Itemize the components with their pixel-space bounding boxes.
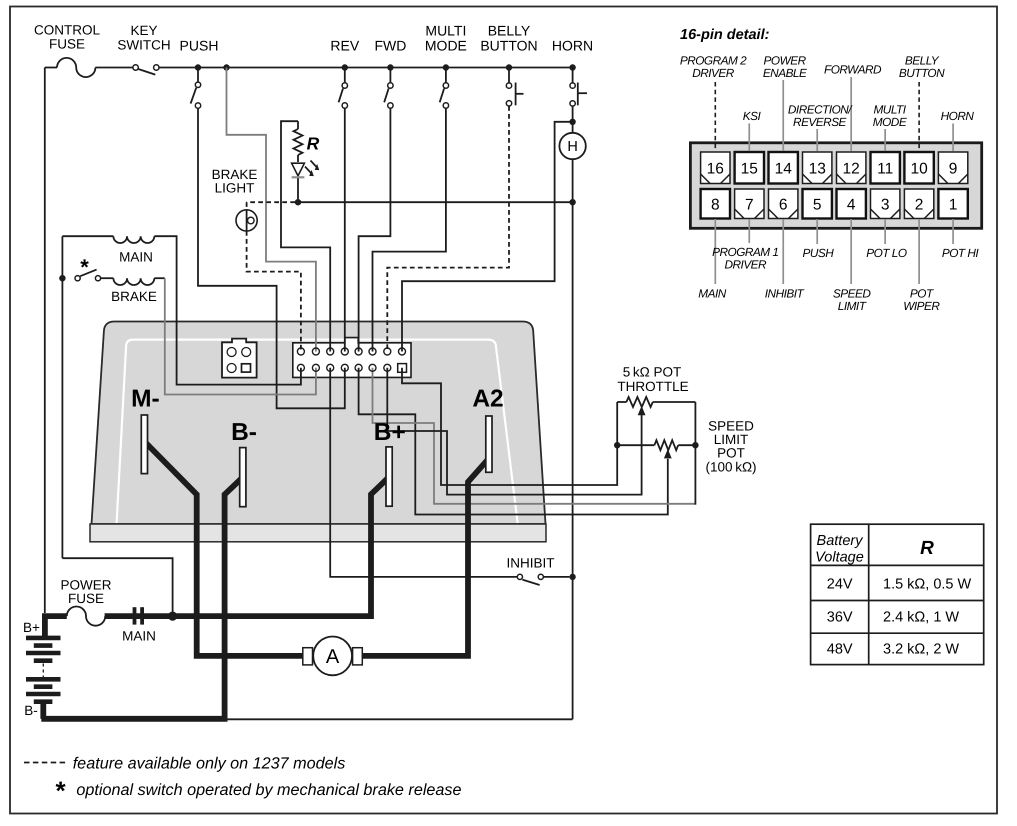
svg-text:36V: 36V (827, 610, 853, 626)
svg-text:PUSH: PUSH (180, 37, 219, 53)
wire: coil feed top (62, 235, 113, 237)
J1 pin 12 cavity (355, 348, 362, 355)
node: pot left junction (614, 442, 620, 448)
terminal B+ stud (386, 447, 392, 506)
LED D1 (292, 163, 305, 176)
J1 pin 8 cavity (297, 364, 304, 371)
wire: LED junction to horn column (298, 201, 573, 203)
wire: battery negative lead (40, 702, 46, 719)
rev switch S3 (344, 68, 346, 83)
wire: pin 6 to inhibit switch (330, 368, 517, 577)
leader: direction/reverse to pin 13 (816, 129, 818, 151)
detail pin 4 (837, 189, 866, 219)
svg-text:12: 12 (843, 160, 860, 177)
wire: battery negative bus (41, 716, 227, 722)
key switch S1 (133, 65, 138, 70)
svg-text:POT: POT (717, 446, 745, 461)
wire: coil branch left leg (61, 236, 63, 558)
svg-text:13: 13 (809, 160, 826, 177)
detail pin 15 (735, 152, 764, 184)
ammeter A1 (313, 637, 352, 676)
wire: control fuse left leg down to battery B+ (44, 68, 46, 614)
4-pin connector J2 shell (222, 339, 257, 378)
node: brake branch junction (59, 275, 65, 281)
detail pin 8 (701, 189, 730, 219)
wire: belly button to pin 10 (dashed, 1237 only) (387, 106, 509, 352)
svg-text:FUSE: FUSE (68, 591, 104, 606)
svg-text:R: R (920, 538, 934, 559)
svg-text:B+: B+ (374, 419, 406, 446)
svg-text:5 kΩ POT: 5 kΩ POT (623, 365, 682, 380)
fwd switch S4 (389, 68, 391, 83)
node: pot right junction (692, 442, 698, 448)
J1 pin 7 cavity (312, 364, 319, 371)
detail pin 3 (871, 189, 900, 219)
detail pin 1 (938, 189, 967, 219)
svg-text:FUSE: FUSE (49, 36, 85, 51)
wire: coil feed down to B+ node (62, 558, 172, 612)
detail pin 10 (904, 152, 933, 184)
svg-text:FWD: FWD (374, 37, 406, 53)
J1 pin 2 cavity (384, 364, 391, 371)
controller body U1 (1237 motor controller) (92, 322, 546, 525)
speed limit pot 100k (617, 444, 654, 446)
detail pin 14 (769, 152, 798, 184)
svg-text:48V: 48V (827, 642, 853, 658)
brake light lamp L1 (236, 210, 257, 231)
brake coil BRAKE (101, 277, 114, 279)
leader: pin 1 to POT HI (952, 219, 954, 244)
svg-text:1.5 kΩ, 0.5 W: 1.5 kΩ, 0.5 W (883, 577, 972, 593)
16-pin detail connector housing (690, 143, 981, 229)
detail pin 13 (803, 152, 832, 184)
leader: pin 5 to PUSH (816, 219, 818, 244)
node: REV junction (342, 64, 348, 70)
svg-text:*: * (80, 255, 89, 280)
svg-text:BRAKE: BRAKE (111, 289, 157, 304)
svg-text:15: 15 (741, 160, 758, 177)
wire: LED junction to brake light (dashed) (247, 201, 295, 203)
svg-text:4: 4 (847, 196, 856, 213)
leader: multi mode to pin 11 (884, 129, 886, 151)
node: MULTI junction (443, 64, 449, 70)
leader: horn to pin 9 (952, 124, 954, 152)
detail pin 5 (803, 189, 832, 219)
wire: horn tap to pin 9 (402, 122, 573, 352)
terminal A2 stud (486, 416, 492, 472)
terminal B- stud (240, 448, 246, 507)
leader: power enable to pin 14 (782, 80, 784, 151)
J1 pin 4 cavity (355, 364, 362, 371)
wire: FWD to controller pin (359, 108, 391, 351)
svg-text:DRIVER: DRIVER (692, 66, 735, 80)
detail pin 16 (701, 152, 730, 184)
svg-text:*: * (56, 776, 67, 806)
J1 pin 11 cavity (369, 348, 376, 355)
detail pin 12 (837, 152, 866, 184)
push switch S2 (197, 68, 199, 83)
svg-text:POT HI: POT HI (942, 246, 980, 260)
svg-text:BUTTON: BUTTON (899, 66, 945, 80)
svg-text:MULTI: MULTI (425, 22, 466, 38)
multi mode switch S5 (445, 68, 447, 83)
resistor table frame (811, 524, 984, 664)
svg-text:B-: B- (24, 703, 38, 718)
svg-text:R: R (307, 134, 320, 154)
wire: inhibit switch to horn return column (543, 576, 569, 578)
svg-text:optional switch operated by me: optional switch operated by mechanical b… (76, 781, 461, 799)
wire: horn to LED junction (572, 159, 574, 202)
wire: horn/LED return down to battery negative (572, 202, 574, 577)
svg-text:DRIVER: DRIVER (725, 258, 768, 272)
node: main contactor output junction (168, 612, 177, 621)
svg-text:2.4 kΩ, 1 W: 2.4 kΩ, 1 W (883, 610, 959, 626)
leader: pin 6 to INHIBIT (782, 219, 784, 284)
wire: brake light to pin 16 (dashed, 1237 only) (247, 231, 301, 352)
horn switch S7 (572, 68, 574, 83)
svg-text:3: 3 (881, 196, 890, 213)
power fuse F2 (67, 607, 105, 626)
node: horn junction (569, 64, 575, 70)
legend dashed sample (24, 762, 67, 764)
svg-text:M-: M- (131, 386, 160, 413)
svg-text:14: 14 (775, 160, 793, 177)
wire: power-enable bracket to pin 14 (281, 121, 330, 351)
throttle pot 5k (617, 401, 626, 403)
controller base flange (90, 524, 546, 542)
wire: pin 2 pot wiper to throttle pot wiper (387, 368, 641, 495)
leader: pin 8 to MAIN (714, 219, 716, 284)
J1 pin 1 cavity (square) (398, 364, 407, 373)
svg-text:A2: A2 (472, 386, 503, 413)
leader: pin 7 to program 1 driver (748, 219, 750, 243)
optional brake-release switch S8 (*) (75, 276, 80, 281)
detail pin 2 (904, 189, 933, 219)
wire: MULTI to controller pin (373, 108, 446, 351)
LED emission arrows (305, 167, 312, 174)
leader: pin 2 to POT WIPER (918, 219, 920, 284)
svg-text:5: 5 (813, 196, 822, 213)
wire: B+ bus battery side (45, 616, 67, 638)
controller inner highlight line (117, 340, 518, 523)
battery mid dashes (42, 664, 44, 678)
detail pin 9 (938, 152, 967, 184)
node: push junction (195, 64, 201, 70)
16-pin connector J1 shell (293, 338, 411, 378)
svg-text:CONTROL: CONTROL (34, 23, 100, 38)
svg-text:1: 1 (949, 196, 958, 213)
svg-text:BUTTON: BUTTON (480, 37, 537, 53)
throttle pot wiper arrow (638, 406, 646, 415)
wire: main coil to pin 8 (154, 236, 301, 384)
svg-text:THROTTLE: THROTTLE (617, 379, 688, 394)
svg-text:3.2 kΩ, 2 W: 3.2 kΩ, 2 W (883, 642, 959, 658)
svg-text:SWITCH: SWITCH (117, 37, 170, 52)
wire: B+ cable to main contactor bus (105, 477, 389, 616)
contactor coil MAIN (113, 236, 154, 243)
detail pin 7 (735, 189, 764, 219)
svg-text:B+: B+ (23, 620, 40, 635)
J1 pin 10 cavity (384, 348, 391, 355)
svg-text:KSI: KSI (743, 109, 762, 123)
svg-text:16-pin detail:: 16-pin detail: (680, 27, 770, 43)
svg-text:PUSH: PUSH (803, 246, 835, 260)
wire: pin 4 speed limit to speed pot wiper (359, 368, 668, 515)
node: horn column junction (569, 199, 575, 205)
svg-text:Voltage: Voltage (815, 550, 864, 566)
leader: pin 4 to SPEED LIMIT (850, 219, 852, 284)
J1 pin 16 cavity (297, 348, 304, 355)
leader: KSI to pin 15 (748, 124, 750, 152)
svg-text:A: A (326, 646, 340, 668)
horn H1 (572, 122, 574, 133)
svg-text:LIMIT: LIMIT (838, 299, 867, 313)
inhibit switch S9 (517, 574, 522, 579)
svg-text:WIPER: WIPER (903, 299, 940, 313)
leader: program 2 driver to pin 16 (dashed) (714, 82, 716, 151)
svg-text:POT LO: POT LO (866, 246, 907, 260)
wire: brake coil to pin 7 (gray) (154, 277, 165, 279)
svg-text:HORN: HORN (552, 37, 593, 53)
node: horn tap (569, 119, 575, 125)
J1 pin 6 cavity (327, 364, 334, 371)
svg-text:INHIBIT: INHIBIT (765, 287, 805, 301)
svg-text:feature available only on 1237: feature available only on 1237 models (73, 754, 346, 772)
ammeter shunt bracket right (353, 648, 363, 665)
svg-text:MAIN: MAIN (698, 287, 726, 301)
svg-text:11: 11 (877, 160, 893, 177)
svg-text:2: 2 (915, 196, 924, 213)
svg-text:ENABLE: ENABLE (763, 66, 807, 80)
wire: KSI to pin 15 (gray) (227, 68, 316, 352)
belly button switch S6 (508, 68, 510, 83)
svg-text:Battery: Battery (817, 533, 864, 549)
svg-text:9: 9 (949, 160, 958, 177)
svg-text:8: 8 (711, 196, 720, 213)
svg-text:LIGHT: LIGHT (215, 181, 255, 196)
svg-text:INHIBIT: INHIBIT (506, 556, 554, 571)
node: FWD junction (387, 64, 393, 70)
wire: REV to controller pin (344, 108, 346, 351)
node: inhibit junction (569, 574, 575, 580)
battery stack (26, 636, 61, 641)
resistor R (297, 121, 299, 129)
J1 pin 9 cavity (399, 348, 406, 355)
J1 pin 13 cavity (341, 348, 348, 355)
svg-text:H: H (567, 139, 577, 155)
wire: pin 1 pot high (402, 368, 617, 485)
svg-text:MODE: MODE (425, 37, 467, 53)
svg-text:REV: REV (330, 37, 359, 53)
wire: push switch to pin 5 (198, 108, 345, 408)
svg-text:(100 kΩ): (100 kΩ) (705, 460, 756, 475)
J1 pin 14 cavity (327, 348, 334, 355)
svg-text:MAIN: MAIN (122, 629, 156, 644)
svg-text:MODE: MODE (873, 115, 907, 129)
svg-text:16: 16 (707, 160, 724, 177)
J1 pin 5 cavity (341, 364, 348, 371)
main contactor tips MAIN (133, 607, 137, 624)
J1 pin 3 cavity (369, 364, 376, 371)
leader: forward to pin 12 (850, 77, 852, 151)
wire: top supply bus (159, 67, 573, 69)
wire: pot low riser (694, 448, 696, 505)
svg-text:KEY: KEY (130, 23, 157, 38)
leader: pin 3 to POT LO (884, 219, 886, 244)
detail pin 11 (871, 152, 900, 184)
svg-text:FORWARD: FORWARD (824, 63, 882, 77)
speed pot wiper arrow (664, 449, 672, 458)
node: KSI junction (223, 64, 229, 70)
svg-text:REVERSE: REVERSE (793, 115, 847, 129)
svg-text:10: 10 (910, 160, 928, 177)
node: LED junction (295, 199, 301, 205)
leader: belly button to pin 10 (dashed) (918, 82, 920, 151)
ammeter shunt bracket left (303, 648, 313, 665)
svg-text:24V: 24V (827, 577, 853, 593)
node: belly button junction (506, 64, 512, 70)
wire: A2 cable to ammeter (362, 459, 489, 656)
wire: M- cable to ammeter (145, 442, 304, 656)
svg-text:MAIN: MAIN (119, 250, 153, 265)
control fuse F1 (45, 67, 57, 69)
svg-text:HORN: HORN (941, 109, 975, 123)
svg-text:7: 7 (745, 196, 754, 213)
svg-text:BELLY: BELLY (488, 22, 531, 38)
detail pin 6 (769, 189, 798, 219)
wire: horn switch to horn node (572, 106, 574, 119)
J1 pin 15 cavity (312, 348, 319, 355)
terminal M- stud (141, 415, 147, 474)
4-pin connector J2 cavities (227, 348, 236, 357)
wire: B- cable to battery negative bus (225, 478, 243, 719)
wire: pin 3 pot low (gray) (373, 368, 695, 504)
svg-text:B-: B- (231, 419, 257, 446)
svg-text:6: 6 (779, 196, 788, 213)
